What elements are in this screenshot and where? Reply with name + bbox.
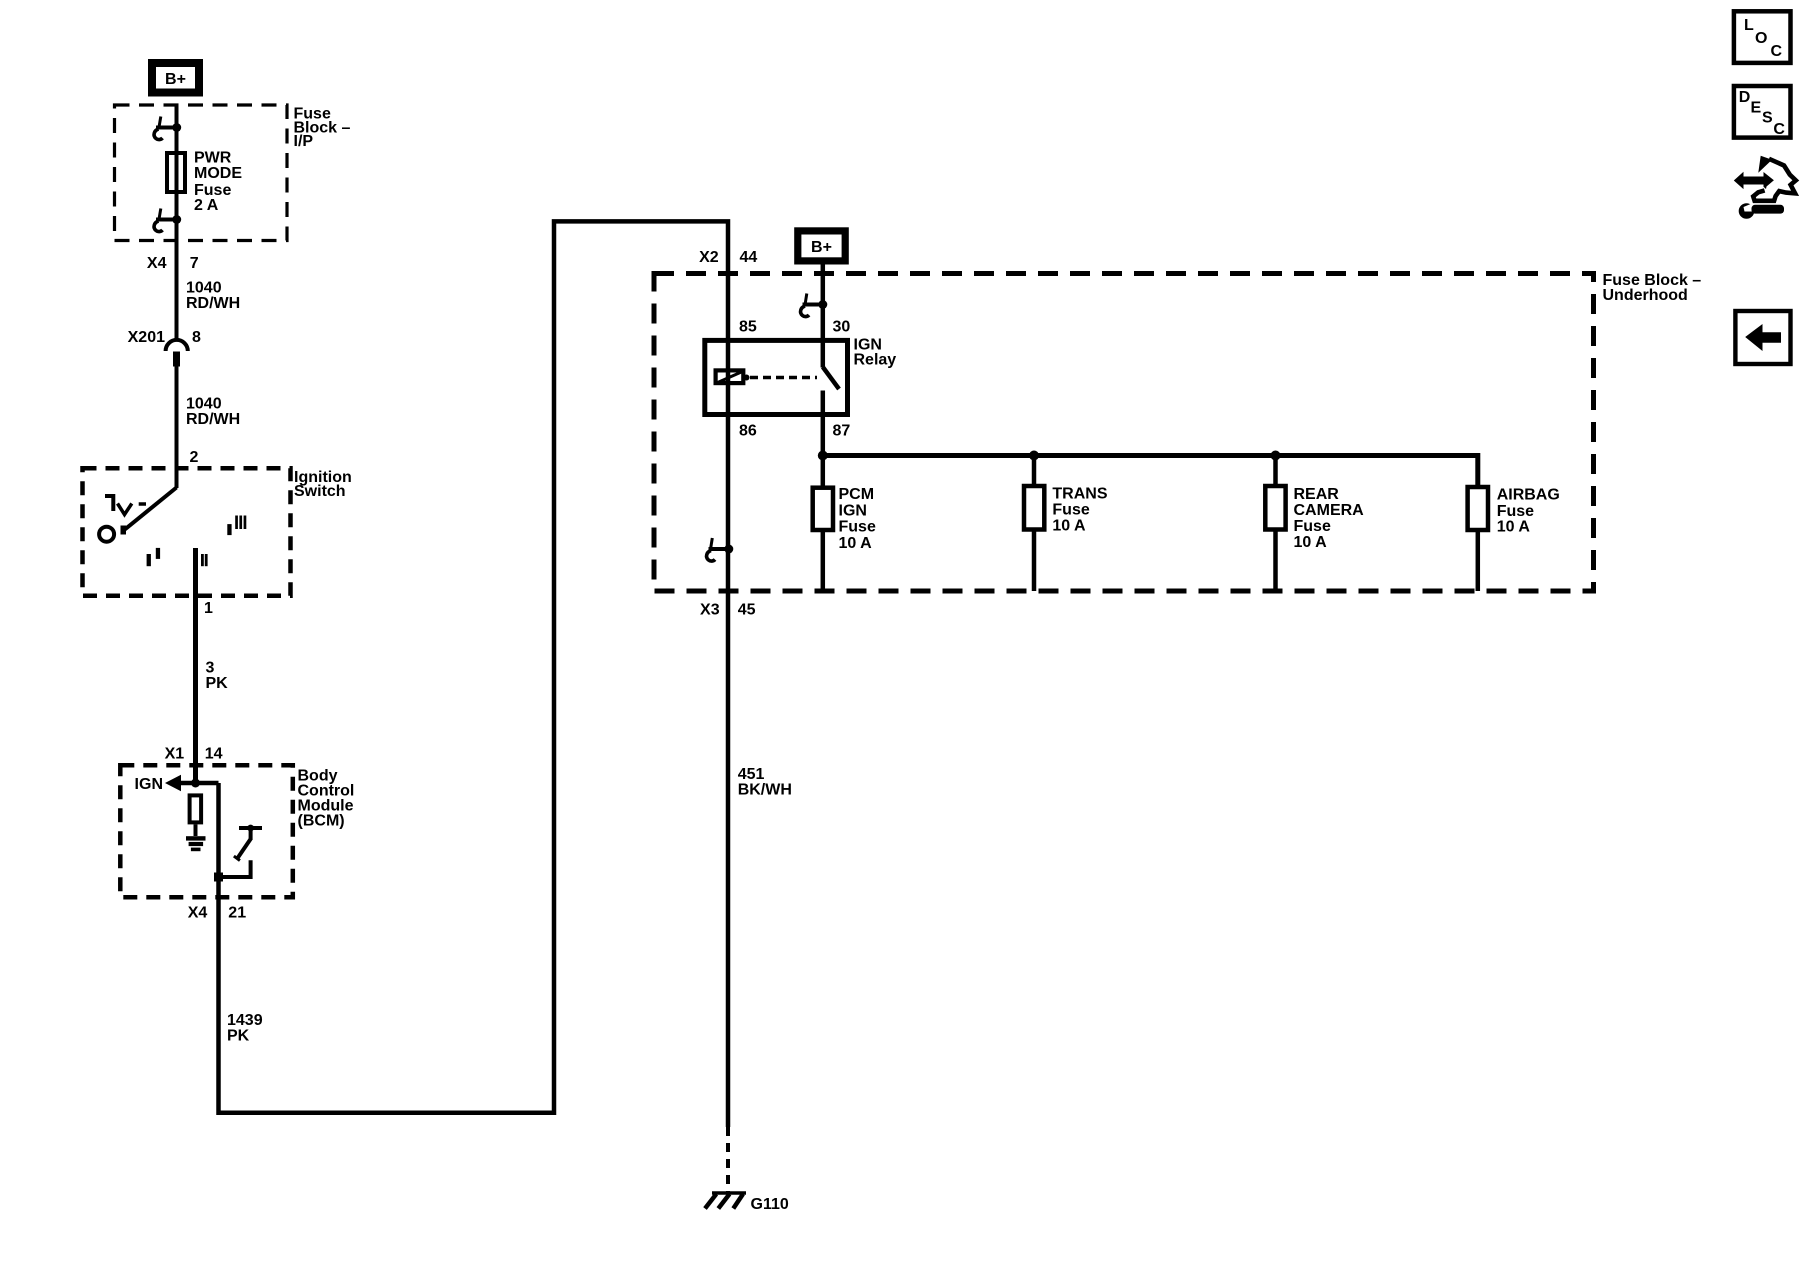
label: Body Control Module (BCM) — [298, 767, 355, 829]
svg-text:D: D — [1739, 89, 1751, 106]
BCM internal switch — [219, 825, 263, 877]
bus wire to fuses — [823, 456, 1478, 488]
svg-text:10 A: 10 A — [1294, 534, 1328, 551]
ignition switch blade (pin 2 to contact) — [124, 488, 177, 531]
svg-text:AIRBAG: AIRBAG — [1497, 487, 1560, 504]
connector X1 pin 14 labels — [165, 746, 223, 763]
svg-text:BK/WH: BK/WH — [738, 782, 792, 799]
svg-text:86: 86 — [739, 422, 757, 439]
svg-text:Underhood: Underhood — [1603, 287, 1688, 304]
fuse TRANS 10A — [1032, 456, 1037, 487]
wire: B+ to ignition switch pin 2 (1040 RD/WH) — [175, 105, 179, 340]
position II label — [201, 554, 208, 566]
ground (BCM internal) — [186, 836, 206, 851]
svg-text:30: 30 — [833, 318, 851, 335]
svg-text:RD/WH: RD/WH — [186, 295, 240, 312]
wire label 1040 RD/WH (upper) — [186, 280, 240, 312]
junction dot TRANS — [1029, 451, 1039, 461]
relay coil-contact dashed link — [750, 376, 817, 380]
connector X4 pin 7 labels — [147, 255, 199, 272]
relay IGN box — [705, 340, 848, 414]
svg-text:44: 44 — [740, 249, 758, 266]
junction dot REAR CAMERA — [1271, 451, 1281, 461]
relay coil — [716, 370, 750, 383]
svg-text:L: L — [1744, 17, 1754, 34]
label: PCM IGN Fuse 10 A — [839, 486, 876, 552]
svg-text:TRANS: TRANS — [1052, 486, 1107, 503]
terminal clip (fuse block I/P top) — [154, 117, 181, 140]
svg-text:B+: B+ — [165, 71, 186, 88]
BCM connector X4 pin 21 labels — [188, 905, 246, 922]
wire label 1040 RD/WH (lower) — [186, 395, 240, 428]
svg-text:21: 21 — [228, 905, 246, 922]
svg-text:1: 1 — [204, 600, 213, 617]
svg-text:I/P: I/P — [294, 133, 314, 150]
label: AIRBAG Fuse 10 A — [1497, 487, 1560, 536]
svg-text:45: 45 — [738, 602, 756, 619]
svg-text:Fuse: Fuse — [1052, 502, 1089, 519]
svg-text:G110: G110 — [751, 1196, 789, 1213]
svg-text:8: 8 — [192, 329, 201, 346]
icon wrench — [1739, 203, 1784, 219]
wire: IGN branch down, 1439 PK run, 451 BK/WH riser to X2/44 — [219, 221, 729, 1127]
power feed B+ (right) — [794, 227, 849, 264]
svg-text:B+: B+ — [811, 239, 832, 256]
svg-text:87: 87 — [833, 422, 851, 439]
fuse block I/P dashed box — [115, 105, 288, 241]
position III tick and label — [227, 516, 246, 536]
svg-text:C: C — [1773, 121, 1785, 138]
svg-text:Relay: Relay — [854, 352, 897, 369]
svg-text:Fuse: Fuse — [1497, 503, 1534, 520]
connector X2 pin 44 labels — [699, 249, 757, 266]
svg-text:2: 2 — [190, 449, 199, 466]
svg-text:IGN: IGN — [839, 502, 867, 519]
resistor (BCM internal) — [190, 795, 202, 822]
label: TRANS Fuse 10 A — [1052, 486, 1107, 535]
svg-text:REAR: REAR — [1294, 486, 1340, 503]
svg-text:O: O — [1755, 30, 1767, 47]
svg-text:X4: X4 — [188, 905, 208, 922]
ignition switch dashed box — [83, 468, 291, 596]
wire: relay 87 to bus — [821, 416, 826, 487]
label: IGN Relay — [854, 337, 897, 369]
icon compare outline arrow — [1758, 156, 1772, 173]
svg-text:10 A: 10 A — [1052, 518, 1086, 535]
fuse AIRBAG 10A — [1468, 487, 1488, 530]
icon back arrow — [1735, 311, 1790, 364]
fuse REAR CAMERA 10A — [1273, 456, 1278, 487]
label: Fuse Block - I/P — [294, 106, 351, 151]
svg-text:X3: X3 — [700, 602, 720, 619]
wire label 3 PK — [206, 660, 229, 692]
svg-text:Fuse: Fuse — [839, 519, 876, 536]
wire: B+ to relay pin 30 — [821, 265, 826, 368]
ignition switch lock glyph — [105, 496, 113, 511]
svg-text:10 A: 10 A — [1497, 519, 1531, 536]
svg-text:X1: X1 — [165, 746, 185, 763]
icon DESC — [1734, 86, 1791, 138]
svg-text:X4: X4 — [147, 255, 167, 272]
svg-text:10 A: 10 A — [839, 535, 873, 552]
svg-text:C: C — [1771, 43, 1783, 60]
fuse block underhood dashed box — [654, 274, 1594, 592]
svg-text:E: E — [1751, 99, 1762, 116]
svg-text:X201: X201 — [128, 329, 165, 346]
dashed wire to ground G110 — [726, 1127, 730, 1192]
svg-text:IGN: IGN — [135, 776, 163, 793]
svg-text:1040: 1040 — [186, 395, 222, 412]
terminal clip (X3 exit) — [707, 538, 734, 561]
svg-text:2 A: 2 A — [194, 197, 219, 214]
relay contact blade — [823, 367, 839, 389]
ground G110 — [705, 1193, 746, 1209]
svg-text:PK: PK — [227, 1028, 250, 1045]
icon LOC — [1734, 11, 1791, 63]
terminal clip (fuse block I/P bottom) — [154, 209, 181, 232]
label: Ignition Switch — [294, 469, 352, 500]
wire: ignition pin II / pin 1 to BCM (3 PK) — [193, 548, 198, 783]
terminal clip (relay pin 30) — [801, 294, 828, 317]
wire 1040 RD/WH (lower) — [175, 367, 179, 489]
svg-text:RD/WH: RD/WH — [186, 411, 240, 428]
svg-text:85: 85 — [739, 318, 757, 335]
node IGN arrow — [135, 775, 219, 793]
label: REAR CAMERA Fuse 10 A — [1294, 486, 1365, 551]
icon compare double arrow — [1734, 172, 1774, 189]
position I tick and label — [147, 548, 161, 566]
svg-text:(BCM): (BCM) — [298, 812, 345, 829]
BCM dashed box — [120, 765, 292, 897]
ignition switch pivot circle — [99, 527, 114, 542]
fuse PCM IGN 10A — [813, 488, 833, 530]
svg-text:14: 14 — [205, 746, 223, 763]
label: PWR MODE Fuse 2 A — [194, 150, 242, 215]
junction dot 87/bus — [818, 451, 828, 461]
svg-text:PCM: PCM — [839, 486, 875, 503]
connector X3 pin 45 labels — [700, 602, 756, 619]
svg-text:PK: PK — [206, 675, 229, 692]
svg-text:X2: X2 — [699, 249, 719, 266]
svg-text:S: S — [1762, 110, 1773, 127]
svg-text:MODE: MODE — [194, 165, 242, 182]
power feed B+ (left) — [148, 59, 203, 97]
label: Fuse Block - Underhood — [1603, 272, 1702, 304]
inline connector X201 pin 8 — [128, 329, 201, 367]
svg-text:Switch: Switch — [294, 483, 346, 500]
junction dot pin 14 / IGN — [191, 779, 200, 788]
junction dot (BCM X4/21 branch) — [214, 873, 223, 882]
wire label 451 BK/WH — [738, 766, 792, 798]
wire label 1439 PK — [227, 1012, 263, 1044]
fuse PWR MODE 2 A — [167, 153, 185, 192]
svg-text:7: 7 — [190, 255, 199, 272]
svg-text:Fuse: Fuse — [1294, 518, 1331, 535]
svg-text:CAMERA: CAMERA — [1294, 502, 1365, 519]
